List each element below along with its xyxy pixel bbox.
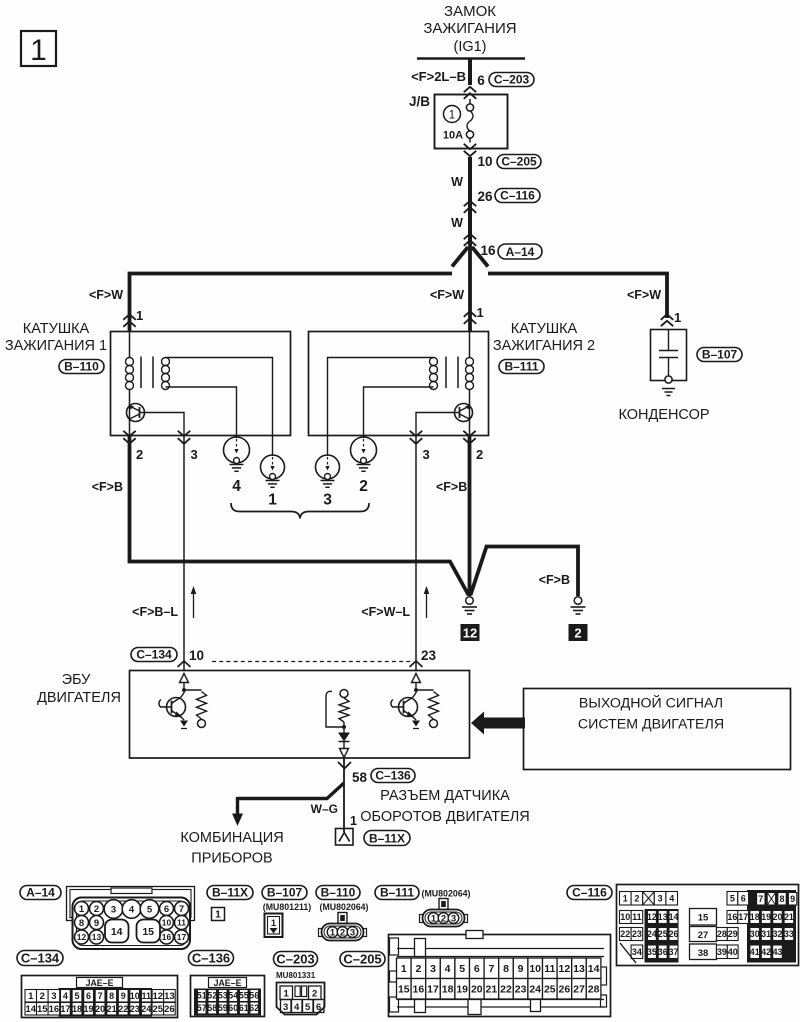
svg-text:12: 12	[77, 932, 87, 942]
connector ref C-136	[189, 950, 234, 965]
wire label W lower	[451, 216, 463, 230]
svg-text:26: 26	[477, 189, 493, 204]
svg-text:4: 4	[445, 963, 451, 975]
svg-text:4: 4	[232, 478, 241, 495]
svg-text:26: 26	[669, 929, 679, 939]
svg-text:58: 58	[207, 1003, 217, 1013]
svg-text:23: 23	[130, 1004, 140, 1014]
svg-text:10: 10	[529, 963, 541, 975]
svg-text:38: 38	[698, 948, 709, 959]
svg-text:8: 8	[109, 991, 114, 1001]
svg-text:6: 6	[316, 1002, 321, 1013]
svg-text:35: 35	[647, 947, 657, 957]
svg-text:B–107: B–107	[267, 885, 303, 899]
wire label <F>W center	[430, 288, 464, 302]
spark plug 1	[261, 455, 285, 509]
coil 2 pin 2 marker	[463, 431, 483, 462]
coil 1 pin 2 marker	[123, 431, 143, 462]
svg-text:3: 3	[51, 991, 56, 1002]
svg-text:13: 13	[92, 932, 102, 942]
spark plug 2	[351, 437, 377, 495]
svg-text:<F>W: <F>W	[627, 288, 661, 302]
svg-text:ПРИБОРОВ: ПРИБОРОВ	[191, 851, 272, 867]
B-11X outgoing connector symbol	[336, 829, 354, 846]
svg-text:C–203: C–203	[494, 72, 530, 86]
signal direction arrow right	[424, 586, 430, 618]
svg-text:7: 7	[488, 963, 494, 975]
svg-text:9: 9	[518, 963, 524, 975]
wire label <F>W left	[89, 288, 123, 302]
svg-text:31: 31	[761, 929, 771, 939]
connector ref C-203	[274, 951, 318, 966]
svg-text:1: 1	[431, 914, 437, 925]
capacitor box B-107	[651, 330, 687, 381]
svg-text:8: 8	[79, 918, 84, 929]
B-110 part number	[320, 902, 369, 912]
svg-text:5: 5	[305, 1002, 311, 1013]
svg-text:33: 33	[784, 929, 794, 939]
connector marker pin 6 C-203	[464, 72, 534, 99]
ECU box	[130, 671, 470, 759]
svg-text:3: 3	[323, 492, 332, 509]
svg-text:3: 3	[423, 447, 430, 462]
B-107 part number	[263, 902, 311, 912]
connector ref B-110	[59, 359, 104, 373]
svg-text:2: 2	[340, 928, 345, 939]
svg-text:13: 13	[658, 912, 668, 922]
svg-text:C–134: C–134	[136, 647, 172, 661]
svg-text:10: 10	[162, 918, 172, 928]
svg-text:ДВИГАТЕЛЯ: ДВИГАТЕЛЯ	[37, 690, 121, 706]
connector C-136 pinout	[191, 976, 265, 1017]
coil 1 core	[141, 357, 153, 389]
svg-text:1: 1	[28, 991, 34, 1002]
svg-text:12: 12	[559, 963, 571, 975]
engine systems output signal box	[524, 689, 791, 770]
svg-text:25: 25	[153, 1004, 164, 1015]
connector ref B-11X	[207, 885, 253, 899]
coil 1 pin 3 marker	[178, 431, 198, 462]
coil 1 pin 3 wire to ECU pin 10	[183, 436, 185, 671]
ignition switch label ZAMOK ZAZHIGANIYA (IG1)	[423, 3, 516, 55]
svg-text:26: 26	[164, 1004, 175, 1015]
ECU tachometer output circuit	[326, 690, 350, 758]
svg-text:ЗАМОК: ЗАМОК	[444, 3, 496, 20]
connector C-134 pinout	[22, 976, 178, 1018]
svg-text:7: 7	[179, 904, 184, 915]
svg-text:2: 2	[574, 626, 581, 641]
connector C-203 pinout	[277, 983, 325, 1015]
connector ref A-14	[20, 885, 61, 899]
connector ref B-11X mid	[364, 831, 410, 846]
svg-text:2: 2	[94, 904, 99, 915]
svg-text:2: 2	[476, 447, 483, 462]
C-134 pin 10 marker	[178, 661, 191, 667]
svg-text:13: 13	[573, 963, 585, 975]
connector C-205 pinout	[389, 931, 611, 1017]
svg-text:16: 16	[49, 1004, 60, 1015]
connector ref B-110	[316, 885, 360, 899]
svg-text:4: 4	[669, 894, 674, 904]
svg-text:<F>2L–B: <F>2L–B	[411, 69, 466, 84]
svg-text:25: 25	[658, 929, 668, 939]
svg-text:3: 3	[111, 904, 116, 915]
wire label <F>B left	[92, 480, 123, 494]
svg-text:C–203: C–203	[276, 951, 314, 966]
svg-text:18: 18	[750, 912, 760, 922]
svg-text:9: 9	[790, 894, 795, 904]
svg-text:37: 37	[669, 947, 679, 957]
coil 1 primary winding	[126, 331, 134, 421]
svg-text:2: 2	[136, 447, 143, 462]
svg-text:9: 9	[121, 991, 126, 1001]
svg-text:29: 29	[728, 929, 738, 939]
connector C-116 pinout	[617, 885, 799, 966]
svg-text:6: 6	[86, 991, 91, 1001]
connector ref C-116	[567, 885, 612, 899]
coil 2 transistor base wire to pin 3	[416, 413, 460, 437]
coil 2 secondary output wire to plug 2	[364, 387, 434, 438]
coil 1 pin 1 marker	[123, 308, 143, 327]
svg-text:13: 13	[164, 991, 175, 1002]
coil 1 secondary output wire to plug 4	[166, 387, 237, 438]
svg-text:62: 62	[249, 1003, 259, 1013]
svg-text:C–116: C–116	[572, 885, 607, 899]
svg-text:22: 22	[500, 984, 512, 996]
ignition coil 2 box B-111	[309, 332, 489, 436]
connector ref C-134	[17, 950, 63, 965]
wire ignition switch to connector C-203	[468, 58, 472, 85]
svg-text:16: 16	[413, 984, 425, 996]
svg-text:20: 20	[95, 1004, 105, 1014]
svg-text:10: 10	[477, 154, 492, 169]
ground 2	[569, 597, 588, 641]
ignition coil 1 box B-110	[111, 332, 291, 436]
wire ground 12 to ground 2	[471, 547, 579, 597]
svg-text:5: 5	[459, 963, 465, 975]
svg-text:15: 15	[698, 913, 709, 924]
svg-text:2: 2	[634, 894, 639, 904]
svg-text:6: 6	[477, 73, 485, 88]
svg-text:24: 24	[141, 1004, 151, 1014]
C-203 part number	[276, 971, 316, 980]
svg-text:1: 1	[449, 110, 455, 122]
svg-text:<F>B: <F>B	[436, 480, 467, 494]
svg-text:J/B: J/B	[409, 94, 430, 109]
junction block J/B	[409, 94, 508, 149]
svg-text:19: 19	[761, 912, 771, 922]
svg-text:(MU802064): (MU802064)	[422, 889, 471, 899]
svg-text:8: 8	[779, 894, 784, 904]
svg-text:26: 26	[559, 984, 571, 996]
svg-text:14: 14	[111, 926, 123, 938]
svg-text:61: 61	[239, 1003, 249, 1013]
svg-text:<F>W–L: <F>W–L	[361, 605, 410, 619]
svg-text:39: 39	[717, 947, 727, 957]
coil 1 pin 2 ground wire	[130, 436, 469, 595]
svg-text:A–14: A–14	[506, 245, 535, 259]
connector B-110 pinout	[319, 913, 367, 941]
svg-text:ЗАЖИГАНИЯ 1: ЗАЖИГАНИЯ 1	[5, 338, 107, 354]
svg-text:32: 32	[773, 929, 783, 939]
svg-text:52: 52	[207, 991, 217, 1001]
svg-text:12: 12	[153, 991, 164, 1002]
svg-text:3: 3	[658, 894, 663, 904]
svg-text:СИСТЕМ ДВИГАТЕЛЯ: СИСТЕМ ДВИГАТЕЛЯ	[578, 717, 724, 733]
svg-text:3: 3	[451, 914, 456, 925]
svg-text:15: 15	[398, 984, 410, 996]
C-136 pin 58 marker	[338, 762, 415, 785]
coil 2 pin 3 marker	[410, 431, 430, 462]
svg-text:17: 17	[738, 912, 748, 922]
svg-text:6: 6	[474, 963, 480, 975]
coil 2 pin 1 marker	[464, 305, 484, 324]
svg-text:ЗАЖИГАНИЯ: ЗАЖИГАНИЯ	[423, 20, 516, 37]
connector marker pin 26 C-116	[464, 188, 540, 213]
svg-text:C–116: C–116	[500, 188, 535, 202]
C-134 pin 23 marker	[410, 661, 423, 667]
svg-text:<F>B: <F>B	[539, 573, 570, 587]
wire J/B to junction node	[468, 157, 472, 245]
svg-text:34: 34	[632, 947, 642, 957]
svg-text:21: 21	[784, 912, 794, 922]
connector B-111 pinout	[420, 899, 468, 927]
svg-text:ЗАЖИГАНИЯ 2: ЗАЖИГАНИЯ 2	[493, 338, 595, 354]
wire label W upper	[451, 175, 463, 189]
svg-text:1: 1	[215, 910, 221, 921]
svg-text:A–14: A–14	[26, 885, 55, 899]
fuse 1 10A	[443, 99, 474, 143]
svg-text:1: 1	[284, 989, 290, 1000]
svg-text:41: 41	[750, 947, 760, 957]
svg-text:16: 16	[727, 912, 737, 922]
wire center branch to coil 2	[468, 243, 472, 331]
svg-text:4: 4	[63, 991, 68, 1001]
coil 2 pin 3 wire to ECU pin 23	[415, 436, 417, 671]
page number 1	[21, 31, 56, 67]
svg-text:6: 6	[164, 904, 169, 915]
ECU driver circuit cylinder 2-3	[391, 674, 439, 729]
svg-text:14: 14	[26, 1004, 37, 1015]
coil 2 core	[446, 357, 458, 389]
svg-text:24: 24	[529, 984, 541, 996]
svg-text:54: 54	[228, 991, 238, 1001]
svg-text:B–111: B–111	[504, 359, 538, 373]
svg-text:(MU801211): (MU801211)	[263, 902, 311, 912]
svg-text:ВЫХОДНОЙ СИГНАЛ: ВЫХОДНОЙ СИГНАЛ	[579, 694, 723, 712]
svg-text:W–G: W–G	[311, 802, 338, 816]
svg-text:17: 17	[177, 932, 187, 942]
svg-text:1: 1	[30, 34, 47, 67]
svg-text:19: 19	[83, 1004, 93, 1014]
svg-text:КОМБИНАЦИЯ: КОМБИНАЦИЯ	[180, 830, 283, 846]
wire label <F>W right	[627, 288, 661, 302]
svg-text:C–136: C–136	[192, 950, 230, 965]
svg-text:C–134: C–134	[21, 950, 60, 965]
svg-text:W: W	[451, 175, 463, 189]
connector A-14 pinout	[67, 887, 195, 950]
svg-text:КОНДЕНСОР: КОНДЕНСОР	[618, 407, 709, 423]
svg-text:15: 15	[142, 926, 154, 938]
svg-text:36: 36	[658, 947, 668, 957]
svg-text:2: 2	[40, 991, 45, 1002]
coil 1 transistor base wire to pin 3	[140, 413, 185, 437]
svg-text:55: 55	[239, 991, 249, 1001]
svg-text:6: 6	[741, 894, 746, 904]
svg-text:11: 11	[544, 963, 555, 975]
coil 2 secondary output wire to plug 3	[328, 358, 434, 457]
svg-text:ЭБУ: ЭБУ	[62, 672, 92, 688]
svg-text:10A: 10A	[443, 130, 463, 142]
ECU label	[37, 672, 121, 706]
spark plug 3	[316, 455, 340, 509]
svg-text:30: 30	[750, 929, 760, 939]
ignition coil 1 label	[5, 321, 107, 354]
svg-text:23: 23	[515, 984, 527, 996]
svg-text:<F>W: <F>W	[430, 288, 464, 302]
svg-text:18: 18	[442, 984, 454, 996]
svg-text:2: 2	[359, 478, 368, 495]
svg-text:17: 17	[60, 1004, 70, 1014]
coil 1 emitter wire to pin 2	[129, 421, 131, 437]
C-134 connector dashed line	[212, 661, 410, 663]
svg-text:2: 2	[312, 989, 317, 1000]
svg-text:1: 1	[401, 963, 407, 975]
svg-text:22: 22	[118, 1004, 128, 1014]
svg-text:5: 5	[730, 894, 735, 904]
svg-text:JAE–E: JAE–E	[214, 978, 242, 988]
svg-text:<F>B–L: <F>B–L	[132, 605, 178, 619]
svg-text:1: 1	[674, 310, 681, 325]
connector B-11X pinout	[212, 908, 225, 921]
capacitor element	[659, 330, 678, 376]
bus wire right branch to capacitor	[488, 274, 667, 319]
svg-text:59: 59	[218, 1003, 228, 1013]
svg-text:3: 3	[191, 447, 198, 462]
spark plug group brace	[231, 503, 369, 519]
svg-text:РАЗЪЕМ ДАТЧИКА: РАЗЪЕМ ДАТЧИКА	[380, 788, 510, 804]
svg-text:12: 12	[647, 912, 657, 922]
svg-text:КАТУШКА: КАТУШКА	[23, 321, 90, 337]
svg-text:17: 17	[427, 984, 439, 996]
wire ECU pin 58	[343, 758, 345, 832]
B-11X pin 1 label	[350, 814, 357, 828]
ECU driver circuit cylinder 1-4	[159, 674, 207, 729]
svg-text:1: 1	[136, 308, 143, 323]
svg-text:16: 16	[162, 932, 172, 942]
svg-text:4: 4	[129, 904, 135, 915]
svg-text:23: 23	[421, 648, 437, 663]
svg-text:11: 11	[177, 918, 186, 928]
svg-text:8: 8	[503, 963, 509, 975]
svg-text:12: 12	[463, 626, 477, 641]
signal direction arrow left	[191, 586, 197, 618]
svg-text:B–110: B–110	[64, 359, 99, 373]
svg-text:27: 27	[573, 984, 585, 996]
svg-text:2: 2	[441, 914, 446, 925]
B-111 part number	[422, 889, 471, 899]
svg-text:28: 28	[588, 984, 600, 996]
svg-text:(IG1): (IG1)	[453, 39, 486, 55]
instrument cluster label	[180, 830, 283, 867]
wire label <F>W-L	[361, 605, 410, 619]
svg-text:10: 10	[130, 991, 140, 1001]
ignition coil 2 label	[493, 321, 595, 354]
svg-text:C–136: C–136	[375, 768, 411, 782]
svg-text:B–107: B–107	[702, 347, 738, 361]
svg-text:42: 42	[761, 947, 771, 957]
svg-text:5: 5	[147, 904, 153, 915]
svg-text:B–111: B–111	[380, 885, 414, 899]
svg-text:16: 16	[480, 243, 496, 258]
svg-text:1: 1	[271, 918, 277, 929]
svg-text:MU801331: MU801331	[276, 971, 316, 980]
coil 2 emitter wire to pin 2	[469, 421, 471, 437]
connector ref B-107	[262, 885, 307, 899]
wire label W-G	[311, 802, 338, 816]
capacitor label KONDENSOR	[618, 407, 709, 423]
svg-text:КАТУШКА: КАТУШКА	[511, 321, 578, 337]
svg-text:20: 20	[471, 984, 483, 996]
wire label <F>2L-B	[411, 69, 466, 84]
svg-text:ОБОРОТОВ ДВИГАТЕЛЯ: ОБОРОТОВ ДВИГАТЕЛЯ	[360, 809, 530, 825]
junction node splitting to three branches	[452, 247, 488, 267]
connector marker pin 16 A-14	[464, 234, 542, 259]
svg-text:C–205: C–205	[501, 154, 537, 168]
svg-text:10: 10	[189, 648, 204, 663]
svg-text:7: 7	[98, 991, 103, 1001]
svg-text:B–110: B–110	[321, 885, 356, 899]
svg-text:24: 24	[647, 929, 657, 939]
svg-text:(MU802064): (MU802064)	[320, 902, 369, 912]
svg-text:57: 57	[197, 1003, 207, 1013]
wire label <F>B ground 2	[539, 573, 570, 587]
svg-text:22: 22	[620, 929, 630, 939]
connector ref B-111	[375, 885, 419, 899]
svg-text:1: 1	[350, 814, 357, 828]
svg-text:1: 1	[79, 904, 85, 915]
engine systems output arrow	[471, 712, 525, 735]
branch wire to instrument cluster	[232, 783, 344, 826]
svg-text:53: 53	[218, 991, 228, 1001]
svg-text:5: 5	[74, 991, 79, 1001]
svg-text:7: 7	[758, 894, 763, 904]
ground 12	[461, 597, 480, 641]
svg-text:3: 3	[350, 928, 355, 939]
svg-text:4: 4	[294, 1002, 300, 1013]
svg-text:B–11X: B–11X	[369, 831, 405, 845]
coil 1 secondary output wire to plug 1	[166, 358, 273, 457]
svg-text:C–205: C–205	[343, 951, 381, 966]
svg-text:28: 28	[717, 929, 727, 939]
svg-text:43: 43	[773, 947, 783, 957]
coil 2 primary winding	[466, 331, 474, 421]
connector ref B-111	[499, 359, 544, 373]
svg-text:27: 27	[698, 930, 709, 941]
svg-text:1: 1	[268, 492, 277, 509]
svg-text:3: 3	[283, 1002, 288, 1013]
coil 2 power transistor	[455, 404, 473, 422]
capacitor ground	[662, 376, 675, 396]
connector ref B-107	[697, 347, 742, 361]
svg-text:JAE–E: JAE–E	[86, 978, 114, 988]
coil 1 secondary winding	[162, 358, 170, 390]
svg-text:40: 40	[728, 947, 738, 957]
svg-text:<F>W: <F>W	[89, 288, 123, 302]
svg-text:58: 58	[352, 770, 368, 785]
svg-text:2: 2	[415, 963, 421, 975]
svg-text:18: 18	[72, 1004, 82, 1014]
